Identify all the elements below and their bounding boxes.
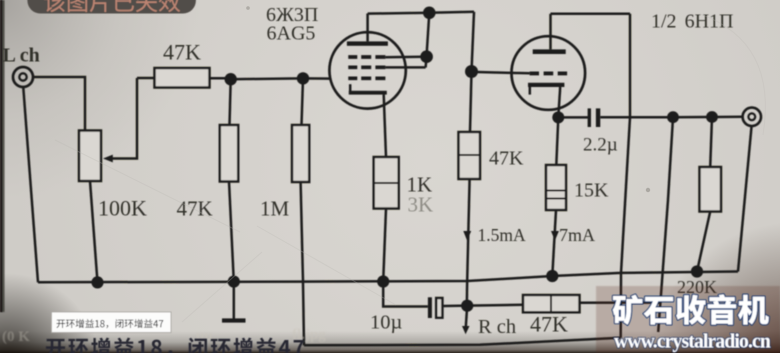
wire feedback riser xyxy=(658,118,673,332)
resistor 1M lead bottom / B+ drop xyxy=(301,182,304,345)
resistor 1K 3K lead bottom xyxy=(383,209,386,282)
svg-text:2.2µ: 2.2µ xyxy=(583,135,618,156)
site watermark xyxy=(613,294,771,352)
capacitor 2.2u plates xyxy=(588,108,601,127)
resistor 47K series lead left xyxy=(137,77,155,80)
resistor 47K plate divider xyxy=(459,154,481,156)
resistor 15K lead top xyxy=(556,117,558,165)
V2 plate xyxy=(533,14,566,54)
faint speck xyxy=(246,6,250,10)
V2 grid lead xyxy=(512,72,530,75)
ground symbol xyxy=(222,282,246,323)
bottom band text (cropped) xyxy=(46,338,304,353)
current arrow 7mA xyxy=(551,231,559,241)
junction V2 cathode node xyxy=(552,111,564,123)
faint scratch lines xyxy=(55,14,765,322)
resistor 1K 3K body xyxy=(374,157,399,209)
wire B+ drop right xyxy=(621,14,630,338)
junction grid divider 1 xyxy=(225,73,237,85)
warm photo tint bottom-right xyxy=(596,286,780,353)
tube V1 6Zh3P envelope xyxy=(329,32,405,108)
resistor 1M body xyxy=(292,125,309,182)
V1 cathode xyxy=(349,84,387,157)
resistor 47K plate lead top xyxy=(470,72,472,133)
svg-text:3K: 3K xyxy=(408,193,434,217)
V1 grid g3 row xyxy=(348,55,385,59)
wire V1 plate top rail xyxy=(368,12,474,14)
V1 g2 tie to g3 xyxy=(385,66,425,69)
junction output feedback tap xyxy=(667,111,679,123)
resistor 1K 3K divider xyxy=(374,182,399,184)
resistor 47K shunt lead top xyxy=(230,79,231,125)
photo bottom dark band xyxy=(0,298,780,353)
wire output line xyxy=(600,116,742,119)
wire decoupling branch xyxy=(383,282,428,307)
junction rail 15K xyxy=(546,270,558,282)
junction grid divider 2 xyxy=(297,72,309,84)
junction rail ground stub xyxy=(228,276,240,288)
svg-text:47K: 47K xyxy=(489,148,524,170)
wire V2 plate to drop xyxy=(551,13,631,16)
junction rail 100K xyxy=(91,276,103,288)
junction node X xyxy=(461,300,473,312)
junction plate to grid coupling xyxy=(465,65,478,78)
svg-text:47K: 47K xyxy=(530,312,568,337)
svg-text:www.crystalradio.cn: www.crystalradio.cn xyxy=(614,332,771,353)
resistor 15K body xyxy=(546,165,566,210)
wire input jack down to rail xyxy=(23,86,38,282)
input jack L ch xyxy=(13,67,33,87)
resistor 47K shunt lead bottom xyxy=(229,182,234,282)
wire grid node line xyxy=(231,77,331,80)
photo left dark edge xyxy=(0,0,5,312)
svg-text:1.5mA: 1.5mA xyxy=(478,225,526,245)
resistor 47K shunt body xyxy=(220,125,238,182)
resistor 47K feedback divider xyxy=(550,295,552,312)
svg-text:R ch: R ch xyxy=(478,316,516,338)
V1 plate xyxy=(347,14,388,46)
svg-text:100K: 100K xyxy=(98,196,147,221)
resistor 47K plate body xyxy=(459,132,481,179)
resistor 1M lead top xyxy=(302,78,304,125)
resistor 47K plate lead bottom xyxy=(467,179,470,305)
junction rail 220K xyxy=(691,265,703,277)
wire jack to pot top xyxy=(33,77,85,131)
potentiometer 100K body xyxy=(79,131,101,182)
V1 grid g2 row xyxy=(348,65,385,69)
ghost watermark remnants xyxy=(2,327,326,345)
ground rail xyxy=(38,272,738,283)
tube V2 6N1P envelope xyxy=(512,36,586,110)
pot wiper arrow wire xyxy=(110,78,137,159)
resistor 15K dividers xyxy=(546,191,566,199)
wire lower B+ rail xyxy=(304,338,621,346)
svg-text:10µ: 10µ xyxy=(370,312,403,334)
svg-text:1M: 1M xyxy=(260,197,290,221)
wire node X to feedback resistor xyxy=(467,304,523,307)
annotation box xyxy=(52,312,172,333)
resistor 220K lead top xyxy=(710,117,712,167)
capacitor 10u plates xyxy=(428,297,443,318)
wire cathode to cap xyxy=(558,116,588,119)
pot wiper arrowhead xyxy=(103,155,113,163)
junction output 220K tap xyxy=(706,111,718,123)
V2 grid row xyxy=(530,71,568,75)
svg-text:1/2 6H1П: 1/2 6H1П xyxy=(651,11,733,33)
junction B screen node xyxy=(420,50,433,63)
wire screen tie down xyxy=(426,13,430,68)
svg-text:uu: uu xyxy=(196,328,213,344)
wire feedback resistor right xyxy=(580,301,661,304)
wire pot bottom to ground rail xyxy=(90,181,98,282)
output jack R ch xyxy=(743,108,761,126)
current arrow 1.5mA xyxy=(463,231,471,241)
svg-text:6AG5: 6AG5 xyxy=(267,23,316,45)
resistor 220K lead bottom xyxy=(697,212,710,272)
resistor 220K body xyxy=(700,167,722,212)
wire jack down to rail xyxy=(738,126,752,272)
expired-image badge xyxy=(27,0,196,14)
V1 grid g1 row xyxy=(348,76,385,80)
svg-text:L ch: L ch xyxy=(3,45,40,67)
resistor 47K feedback body xyxy=(523,295,580,312)
svg-text:7mA: 7mA xyxy=(559,225,595,245)
svg-text:47K: 47K xyxy=(177,197,213,221)
resistor 47K series body xyxy=(155,68,210,88)
V2 cathode xyxy=(528,83,564,118)
svg-text:(0 K: (0 K xyxy=(2,329,30,345)
junction rail cathode node xyxy=(377,275,389,287)
wire cap to node X xyxy=(442,304,467,307)
resistor 15K lead bottom xyxy=(552,210,556,276)
svg-text:47K: 47K xyxy=(163,40,201,65)
R ch branch arrow xyxy=(462,306,470,335)
V1 g3 right extension xyxy=(385,56,422,59)
wire plate rail corner down xyxy=(472,12,475,72)
resistor 47K series lead right xyxy=(210,77,231,80)
svg-text:15K: 15K xyxy=(574,180,609,202)
wire coupling to V2 grid xyxy=(472,72,512,73)
junction A on plate rail xyxy=(423,7,436,20)
